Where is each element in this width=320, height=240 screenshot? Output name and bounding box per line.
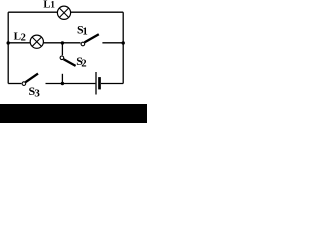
svg-text:L1: L1 [43,0,55,11]
svg-text:S1: S1 [77,22,88,37]
svg-text:S3: S3 [29,84,41,99]
svg-text:L2: L2 [14,31,26,44]
svg-text:S2: S2 [76,54,86,69]
